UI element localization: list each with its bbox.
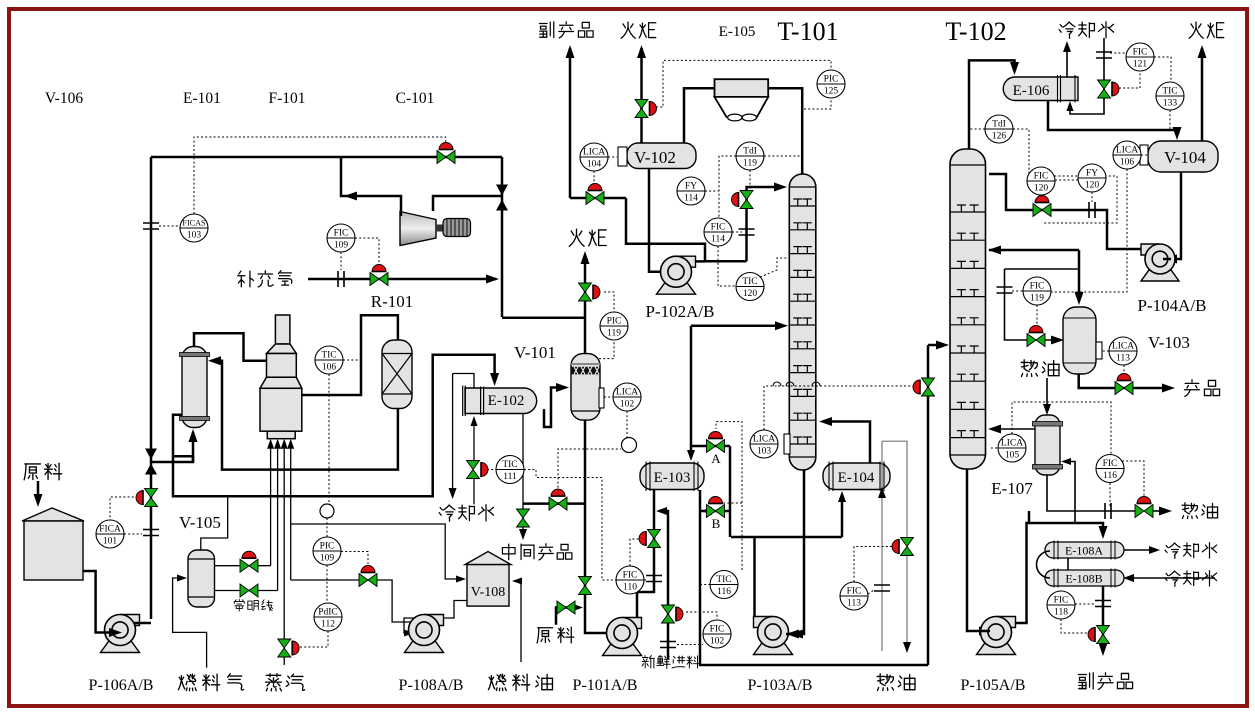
instrument PdIC-112 bbox=[314, 603, 342, 631]
signal FIC-109 to valve bbox=[355, 238, 379, 265]
arrow cw up into E-102 bbox=[471, 416, 478, 426]
signal FIC-116 tap bbox=[1109, 483, 1111, 507]
wire byproduct riser bbox=[569, 48, 572, 198]
arrow burner 3 bbox=[281, 439, 288, 449]
label makeup hydrogen bbox=[238, 271, 292, 287]
wire V-101 bottom bbox=[585, 420, 612, 633]
arrow cw down bbox=[449, 488, 457, 499]
label raw material left bbox=[24, 463, 62, 480]
arrow into V-105 bbox=[177, 575, 187, 582]
furnace F-101 bbox=[260, 315, 302, 439]
instrument FIC-102 bbox=[703, 620, 731, 648]
arrow into T-102 bbox=[936, 341, 949, 350]
label fuel gas bbox=[178, 674, 243, 691]
label cooling water mid bbox=[439, 505, 493, 522]
label cooling water B bbox=[1165, 571, 1217, 587]
instrument FIC-109 bbox=[327, 224, 355, 252]
pump P-102A/B bbox=[657, 256, 696, 294]
vessel V-104 bbox=[1140, 141, 1218, 172]
svg-text:102: 102 bbox=[710, 637, 725, 647]
wire byproduct tap bbox=[626, 198, 747, 261]
signal LICA-113 to valve bbox=[1123, 365, 1125, 376]
column T-101 bbox=[789, 174, 816, 470]
svg-text:TIC: TIC bbox=[321, 351, 336, 361]
signal FIC-121 TIC-133 link bbox=[1154, 57, 1171, 82]
signal hop arcs LICA-103 bbox=[773, 382, 820, 386]
signal PIC-109 to PdIC-112 bbox=[326, 565, 328, 603]
wire cooling water return bbox=[452, 374, 454, 495]
wire V-103 top feed bbox=[1078, 250, 1081, 298]
instrument TIC-116 bbox=[710, 571, 738, 599]
exchanger E-101 bbox=[180, 347, 210, 428]
signal LICA-103 up bbox=[764, 386, 778, 430]
svg-text:PIC: PIC bbox=[320, 542, 335, 552]
wire T-102 overhead bbox=[969, 60, 1015, 149]
instrument FIC-120 bbox=[1027, 167, 1055, 195]
wire hot oil to E-107 bbox=[1046, 378, 1048, 408]
arrow product out bbox=[1162, 384, 1175, 393]
signal TV valve chain bbox=[558, 449, 621, 492]
svg-text:E-101: E-101 bbox=[183, 90, 221, 107]
svg-text:101: 101 bbox=[103, 537, 118, 547]
signal LICA-104 tap bbox=[608, 156, 617, 158]
instrument FICA-101 bbox=[96, 520, 124, 548]
arrow flare V-102 bbox=[637, 45, 646, 58]
wire E-108 u-bend bbox=[1037, 551, 1051, 578]
junction main junction bbox=[496, 185, 508, 211]
instrument FIC-113 bbox=[840, 582, 868, 610]
signal FIC-116 to valve bbox=[1122, 461, 1144, 499]
signal LICA-113 tap bbox=[1102, 350, 1109, 352]
control valve V-101 flare PV bbox=[579, 283, 592, 301]
arrow into V-103 top bbox=[1075, 292, 1084, 305]
control valve cw TV-111 bbox=[467, 461, 480, 479]
exchanger E-103 bbox=[640, 462, 704, 492]
instrument FY-114 bbox=[677, 177, 705, 205]
instrument TdI-119 bbox=[736, 142, 764, 170]
wire steam line bbox=[283, 448, 285, 665]
signal FIC-113 to valve bbox=[854, 547, 892, 583]
arrow into P-105 bbox=[979, 627, 992, 636]
svg-text:LICA: LICA bbox=[1001, 439, 1023, 449]
svg-text:106: 106 bbox=[1120, 158, 1135, 168]
svg-text:FICAS: FICAS bbox=[182, 219, 206, 228]
instrument FIC-116 bbox=[1096, 455, 1124, 483]
label hot oil mid bbox=[1021, 360, 1059, 377]
arrow P-103 arrow bbox=[786, 630, 799, 639]
label flare top right bbox=[1189, 22, 1224, 38]
instrument LICA-103 bbox=[750, 430, 778, 458]
signal LICA-104 to valve bbox=[593, 171, 595, 185]
wire compressor feed drop bbox=[501, 157, 504, 317]
wire E-103 A line bbox=[691, 445, 730, 448]
label fresh feed bbox=[642, 656, 699, 669]
svg-text:E-108A: E-108A bbox=[1065, 544, 1103, 558]
exchanger E-108B bbox=[1045, 569, 1124, 588]
instrument LICA-106 bbox=[1113, 141, 1141, 169]
wire to E-104 bbox=[841, 495, 844, 537]
exchanger E-102 bbox=[463, 386, 537, 417]
signal chain circle to PIC-109 bbox=[326, 518, 328, 537]
control valve T-102 feed LV bbox=[922, 378, 935, 396]
wire fuel oil burner line bbox=[290, 448, 292, 580]
pump P-105A/B bbox=[977, 617, 1016, 655]
wire to V-101 top bbox=[502, 317, 585, 320]
label cooling water top bbox=[1059, 22, 1113, 39]
signal FIC-110 to valve bbox=[630, 539, 640, 566]
instrument FIC-119 bbox=[1023, 277, 1051, 305]
svg-text:TIC: TIC bbox=[716, 575, 731, 585]
wire fuel gas supply bbox=[173, 578, 207, 668]
signal FIC-113 tap bbox=[868, 590, 874, 594]
instrument PIC-119 bbox=[600, 312, 628, 340]
arrow cw out A bbox=[1149, 546, 1160, 554]
pump P-106A/B bbox=[101, 615, 140, 653]
svg-text:V-108: V-108 bbox=[471, 585, 506, 600]
svg-text:126: 126 bbox=[992, 132, 1007, 142]
pump P-108A/B bbox=[405, 615, 444, 653]
instrument LICA-102 bbox=[613, 383, 641, 411]
arrow cw out bbox=[1063, 41, 1071, 52]
signal FIC-109 tap bbox=[340, 252, 342, 270]
arrow raw material down bbox=[37, 481, 40, 502]
exchanger E-108A bbox=[1045, 541, 1124, 560]
junction riser junction bbox=[145, 449, 157, 475]
wire P-101 discharge bbox=[637, 490, 654, 619]
wire main riser bbox=[150, 157, 153, 619]
wire V-104 flare bbox=[1201, 48, 1204, 141]
exchanger E-106 bbox=[1003, 75, 1078, 103]
svg-text:R-101: R-101 bbox=[371, 292, 414, 311]
svg-text:FIC: FIC bbox=[1103, 459, 1118, 469]
control valve feed FV-110 bbox=[648, 530, 661, 548]
svg-text:LICA: LICA bbox=[753, 435, 775, 445]
arrow into E-102 bbox=[490, 373, 499, 386]
control valve hot oil TV bbox=[901, 538, 914, 556]
control valve hot oil out FV bbox=[1135, 505, 1153, 518]
control valve suction TV bbox=[549, 497, 567, 510]
instrument TIC-106 bbox=[315, 346, 343, 374]
wire E-105 left leg bbox=[684, 88, 715, 143]
svg-text:E-104: E-104 bbox=[838, 470, 875, 486]
svg-text:110: 110 bbox=[623, 583, 637, 593]
arrow into E-107 side bbox=[1061, 458, 1071, 465]
signal PIC-119 tap bbox=[599, 340, 614, 359]
instrument FIC-118 bbox=[1047, 591, 1075, 619]
signal FICA-101 tap bbox=[124, 533, 142, 535]
orifice cw orifice 121 bbox=[1096, 52, 1112, 58]
exchanger E-104 bbox=[823, 462, 890, 492]
svg-text:FIC: FIC bbox=[334, 229, 349, 239]
signal PIC-125 tap bbox=[804, 98, 831, 109]
signal FIC-118 to valve bbox=[1061, 619, 1090, 633]
signal PIC-109 to valve bbox=[341, 552, 368, 567]
label intermediate product bbox=[502, 544, 571, 560]
arrow into T-101 side bbox=[819, 417, 832, 426]
svg-text:E-106: E-106 bbox=[1013, 83, 1050, 99]
wire E-107 bottoms link bbox=[1028, 511, 1031, 523]
wire junction to E-101 bbox=[151, 432, 193, 462]
control valve hydrogen makeup FV bbox=[370, 273, 388, 286]
signal FIC-119 to valve bbox=[1036, 305, 1038, 326]
arrow into P-106 bbox=[109, 628, 122, 637]
control valve FV on top header bbox=[437, 151, 455, 164]
pump P-104A/B bbox=[1141, 244, 1179, 281]
wire cw into E-102 bbox=[473, 420, 475, 461]
control valve fresh feed FV-102 bbox=[662, 605, 675, 623]
arrow into T-101 top bbox=[774, 183, 787, 192]
label hot oil right bbox=[1182, 503, 1217, 519]
wire hot oil supply bbox=[881, 441, 883, 651]
svg-text:V-105: V-105 bbox=[179, 513, 221, 532]
signal TIC-111 from valve bbox=[487, 469, 496, 471]
wire E-103 right drop bbox=[700, 490, 928, 665]
signal LICA-102 tap bbox=[604, 396, 613, 398]
wire top header bbox=[151, 156, 502, 159]
svg-text:120: 120 bbox=[743, 289, 758, 299]
pump P-103A/B bbox=[754, 617, 793, 655]
svg-text:T-102: T-102 bbox=[945, 17, 1006, 46]
signal LICA-103 signal bbox=[778, 386, 915, 387]
wire fuel gas burner line bbox=[270, 448, 272, 566]
valve V-101 bottom valve bbox=[579, 577, 592, 595]
signal TIC-106 tap right bbox=[343, 359, 360, 361]
arrow hot oil out bbox=[1159, 507, 1172, 516]
wire V-102 flare bbox=[640, 48, 643, 143]
wire E-104 vapor return bbox=[823, 422, 870, 464]
wire E-101 to F-101 bbox=[194, 333, 267, 361]
arrow into P-103 bbox=[790, 630, 803, 639]
svg-text:FIC: FIC bbox=[1030, 282, 1045, 292]
signal FICAS-103 tap bbox=[159, 225, 180, 227]
instrument TIC-120 bbox=[736, 273, 764, 301]
arrow byproduct up bbox=[566, 45, 575, 58]
signal FIC-114 tap bbox=[732, 231, 742, 233]
arrow into E-103 top bbox=[687, 450, 695, 461]
arrow into V-108 right bbox=[512, 578, 522, 585]
svg-text:106: 106 bbox=[322, 363, 337, 373]
arrow into V-108 bbox=[456, 576, 466, 583]
label fuel oil bbox=[488, 674, 552, 691]
arrow B into line bbox=[701, 507, 712, 515]
signal TIC-106 chain bbox=[328, 374, 330, 504]
wire P-105 discharge bbox=[1010, 523, 1103, 623]
control valve riser FV bbox=[145, 489, 158, 507]
tank V-106 (raw material storage) bbox=[22, 508, 84, 580]
orifice reflux orifice T-102 bbox=[1089, 202, 1095, 218]
control valve cw FV-121 bbox=[1098, 80, 1111, 98]
svg-text:116: 116 bbox=[717, 587, 731, 597]
svg-text:P-106A/B: P-106A/B bbox=[89, 677, 154, 694]
arrow into P-104 bbox=[1164, 255, 1177, 264]
svg-text:TdI: TdI bbox=[992, 120, 1006, 130]
signal FIC-114 to TIC-120 bbox=[718, 246, 736, 286]
label byproduct bottom bbox=[1078, 673, 1132, 690]
instrument FICAS-103 bbox=[180, 214, 208, 242]
arrow into E-106 bottom bbox=[1067, 101, 1074, 111]
instrument FIC-114 bbox=[704, 218, 732, 246]
svg-text:FY: FY bbox=[1086, 169, 1098, 179]
control valve fuel gas PV bbox=[240, 559, 258, 572]
wire tank to P-106 bbox=[83, 571, 110, 633]
instrument PIC-109 bbox=[313, 537, 341, 565]
wire V-105 outlet lower bbox=[215, 590, 278, 592]
instrument FIC-110 bbox=[616, 566, 644, 594]
svg-text:LICA: LICA bbox=[1112, 342, 1134, 352]
instrument PIC-125 bbox=[817, 70, 845, 98]
wire V-103 feed drop bbox=[1005, 269, 1053, 340]
wire R-101 bottom loop bbox=[211, 361, 398, 470]
svg-text:E-102: E-102 bbox=[488, 393, 525, 409]
valve pilot valve bbox=[240, 584, 258, 597]
wire P-103 discharge bbox=[753, 537, 756, 618]
svg-text:E-107: E-107 bbox=[991, 479, 1033, 498]
arrow to intermediate product bbox=[519, 529, 527, 540]
svg-text:102: 102 bbox=[620, 400, 635, 410]
orifice riser orifice bottom bbox=[143, 530, 159, 536]
svg-text:P-101A/B: P-101A/B bbox=[573, 677, 638, 694]
svg-text:111: 111 bbox=[503, 472, 517, 482]
signal FICAS-103 to valve bbox=[194, 137, 446, 214]
instrument FIC-121 bbox=[1126, 43, 1154, 71]
instrument FY-120 bbox=[1078, 164, 1106, 192]
signal FIC-120 FY-120 link bbox=[1055, 179, 1078, 181]
vessel V-101 bbox=[571, 354, 600, 421]
svg-text:E-103: E-103 bbox=[654, 470, 691, 486]
wire E-108B bottom bbox=[1102, 586, 1105, 648]
orifice hot oil out orifice bbox=[1105, 503, 1111, 519]
wire E-106 to V-104 bbox=[1048, 101, 1177, 135]
arrow join suction bbox=[572, 604, 583, 612]
svg-text:V-104: V-104 bbox=[1164, 148, 1206, 167]
signal TdI-119 left bbox=[719, 156, 736, 218]
control valve byproduct LV bbox=[586, 192, 604, 205]
svg-text:P-105A/B: P-105A/B bbox=[961, 677, 1026, 694]
svg-text:105: 105 bbox=[1005, 451, 1020, 461]
wire F-101 outlet bbox=[302, 315, 398, 395]
signal PIC-119 from valve bbox=[604, 292, 614, 312]
wire makeup hydrogen line bbox=[308, 278, 496, 281]
svg-text:FICA: FICA bbox=[99, 525, 121, 535]
arrow into P-102 bbox=[662, 267, 675, 276]
signal FY-114 link bbox=[705, 190, 719, 192]
wire hot oil out valve seg bbox=[1152, 510, 1168, 512]
svg-text:B: B bbox=[712, 516, 721, 531]
svg-text:FY: FY bbox=[685, 182, 697, 192]
signal PdIC-112 to steam valve bbox=[299, 631, 328, 647]
arrow into E-107 top bbox=[1043, 404, 1051, 415]
signal TIC-133 tap bbox=[1169, 110, 1171, 129]
wire byproduct valve line bbox=[570, 197, 626, 200]
control valve steam PdV bbox=[278, 639, 291, 657]
wire hot oil return bbox=[882, 441, 907, 643]
signal LICA-105 chain bbox=[1012, 402, 1111, 454]
svg-text:A: A bbox=[711, 451, 721, 466]
svg-text:T-101: T-101 bbox=[777, 17, 838, 46]
arrow into E-104 right bbox=[878, 487, 886, 498]
signal TdI-119 down bbox=[749, 170, 751, 191]
wire pilot burner line bbox=[277, 448, 279, 591]
arrow into riser bbox=[486, 275, 499, 284]
wire V-102 outlet bbox=[649, 169, 671, 272]
arrow into T-102 side bbox=[988, 425, 1001, 434]
wire E-102 bottom line bbox=[522, 414, 524, 535]
signal FIC-110 tap bbox=[644, 579, 647, 581]
svg-text:E-108B: E-108B bbox=[1065, 572, 1102, 586]
wire E-108A cw out bbox=[1124, 549, 1154, 551]
column T-102 bbox=[950, 149, 986, 469]
svg-text:TIC: TIC bbox=[502, 460, 517, 470]
orifice V-103 feed orifice bbox=[997, 287, 1013, 293]
svg-text:116: 116 bbox=[1103, 471, 1117, 481]
svg-text:120: 120 bbox=[1085, 181, 1100, 191]
wire E-105 right leg bbox=[768, 88, 802, 174]
wire reflux T-102 bbox=[989, 174, 1146, 249]
compressor C-101 bbox=[400, 212, 471, 246]
wire P-103 suction seg bbox=[786, 633, 793, 636]
wire product line bbox=[1079, 374, 1168, 388]
instrument LICA-113 bbox=[1109, 337, 1137, 365]
signal LICA-106 to FIC-119 bbox=[1051, 169, 1127, 292]
control valve V-103 feed FV bbox=[1027, 334, 1045, 347]
wire V-101 flare line bbox=[584, 255, 587, 354]
wire P-106 discharge bbox=[134, 622, 151, 625]
wire E-103 B line bbox=[700, 510, 730, 513]
valve raw oil valve bbox=[557, 601, 575, 614]
wire reflux riser T-101 bbox=[747, 187, 784, 261]
svg-text:TIC: TIC bbox=[742, 277, 757, 287]
arrow join feed bbox=[656, 507, 667, 515]
wire E-101 side outlet bbox=[173, 355, 495, 497]
wire AB drop bbox=[729, 446, 732, 537]
wire E-101 bottom stub bbox=[173, 456, 193, 462]
label flare top mid bbox=[621, 22, 656, 38]
label byproduct top bbox=[539, 22, 593, 38]
wire P-104 suction seg bbox=[1163, 258, 1171, 261]
svg-text:103: 103 bbox=[757, 447, 772, 457]
arrow raw into tank bbox=[34, 494, 43, 507]
signal branch to FIC-110 bbox=[524, 470, 616, 581]
wire fuel oil line bbox=[291, 580, 428, 622]
wire cw out E-106 bbox=[1066, 44, 1068, 77]
svg-text:109: 109 bbox=[334, 241, 349, 251]
control valve product LV bbox=[1115, 382, 1133, 395]
wire cw valve line bbox=[453, 374, 474, 389]
wire T-102 bottoms bbox=[967, 469, 986, 631]
control valve T-102 reflux FV bbox=[1033, 204, 1051, 217]
wire recycle left bbox=[341, 157, 401, 216]
arrow burner 2 bbox=[274, 439, 281, 449]
wire T-102 feed bbox=[928, 344, 944, 347]
signal FY-120 tap bbox=[1091, 192, 1093, 202]
svg-text:PIC: PIC bbox=[824, 75, 839, 85]
orifice feed orifice 110 bbox=[646, 576, 662, 582]
orifice hot oil orifice bbox=[874, 585, 890, 591]
label hot oil bottom bbox=[877, 674, 915, 691]
signal TdI-119 right bbox=[764, 155, 801, 157]
arrow flare V-104 bbox=[1198, 45, 1207, 58]
svg-text:109: 109 bbox=[320, 554, 335, 564]
svg-text:F-101: F-101 bbox=[268, 90, 305, 107]
wire E-107 side feed bbox=[1064, 462, 1075, 524]
svg-text:103: 103 bbox=[187, 231, 202, 241]
svg-text:E-105: E-105 bbox=[719, 24, 756, 40]
svg-text:P-108A/B: P-108A/B bbox=[399, 677, 464, 694]
orifice hydrogen orifice bbox=[338, 271, 344, 287]
wire P-105 suction seg bbox=[980, 630, 990, 633]
wire V-105 vent bbox=[201, 496, 228, 550]
svg-text:FIC: FIC bbox=[847, 587, 862, 597]
